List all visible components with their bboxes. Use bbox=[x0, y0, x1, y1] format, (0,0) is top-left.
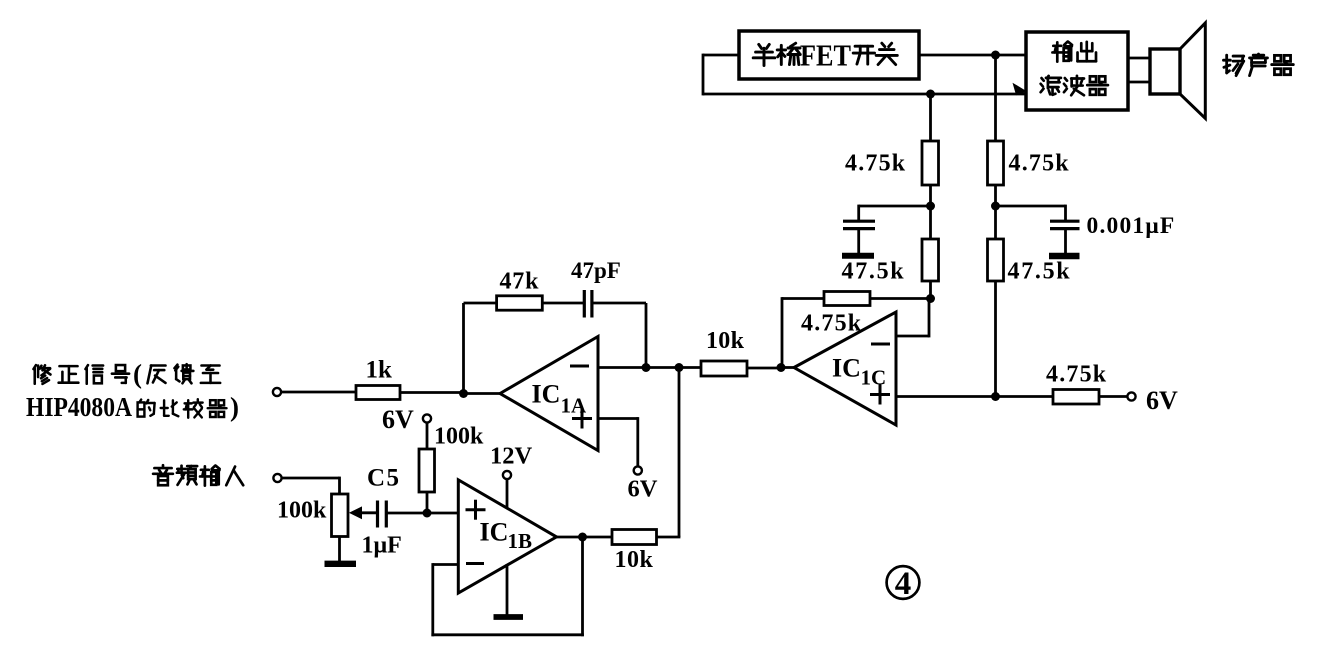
wire: IC1B output bbox=[557, 536, 613, 539]
wire: IC1C non-inverting input to 4.75k/6V bbox=[896, 395, 1053, 398]
junction: non-inverting rail meets 47.5k bbox=[991, 392, 1000, 401]
wire: left node to capacitor bbox=[859, 205, 931, 221]
svg-text:C5: C5 bbox=[367, 465, 401, 492]
resistor 4.75k (to 6V ref) bbox=[1053, 390, 1099, 405]
resistor 10k (IC1C out to IC1A) bbox=[701, 361, 747, 376]
label: 半桥FET开关 bbox=[753, 38, 897, 73]
svg-text:6V: 6V bbox=[382, 405, 414, 434]
svg-text:6V: 6V bbox=[1146, 386, 1178, 415]
junction: IC1C inverting node (47.5k/4.75k) bbox=[926, 294, 935, 303]
block: output filter box bbox=[1026, 32, 1128, 110]
op-amp IC1B (points right) bbox=[458, 480, 556, 593]
terminal: audio input bbox=[273, 474, 281, 482]
wire: IC1A non-inverting to 6V terminal bbox=[598, 417, 638, 467]
wire: right 4.75k to 47.5k bbox=[994, 185, 997, 239]
wire: feedback right leg down to inverting rail bbox=[645, 303, 648, 368]
svg-text:IC: IC bbox=[532, 380, 561, 409]
minus sign IC1A bbox=[570, 365, 589, 368]
label: 修正信号(反馈至 bbox=[33, 365, 50, 384]
resistor 1k bbox=[356, 386, 400, 400]
wire: filter to speaker lower bbox=[1128, 81, 1151, 84]
svg-text:): ) bbox=[230, 392, 239, 422]
wire: right node to 0.001uF capacitor bbox=[996, 205, 1066, 221]
minus sign IC1C bbox=[871, 343, 890, 346]
capacitor C5 1uF bbox=[378, 501, 387, 528]
resistor 4.75k (right, from top rail) bbox=[988, 141, 1004, 185]
block: half-bridge FET switch box bbox=[739, 31, 919, 79]
svg-text:12V: 12V bbox=[490, 443, 533, 470]
resistor 47k (IC1A feedback) bbox=[497, 296, 543, 310]
svg-text:4.75k: 4.75k bbox=[801, 311, 862, 337]
junction: lower rail at x=930 bbox=[926, 90, 935, 99]
ground bar under left capacitor bbox=[842, 253, 874, 259]
resistor 100k (bias) bbox=[419, 449, 435, 492]
plus sign IC1B bbox=[466, 500, 486, 520]
svg-text:10k: 10k bbox=[615, 547, 654, 573]
potentiometer 100k body bbox=[332, 494, 349, 537]
svg-text:4.75k: 4.75k bbox=[1046, 362, 1107, 388]
junction: feedback joins inverting rail bbox=[642, 363, 651, 372]
label: 输出滤波器 bbox=[1041, 42, 1108, 96]
ground bar under 0.001uF bbox=[1049, 253, 1080, 259]
svg-text:6V: 6V bbox=[628, 476, 658, 503]
wire: IC1B ground stem bbox=[506, 564, 509, 615]
capacitor 47pF (feedback) bbox=[584, 290, 592, 318]
wire: terminal to 1k bbox=[281, 391, 356, 394]
pot wiper arrow bbox=[350, 507, 362, 518]
wire: C5 to IC1B non-inverting bbox=[386, 512, 458, 515]
ground bar IC1B bbox=[494, 614, 524, 620]
wire: 4.75k to 6V terminal bbox=[1099, 395, 1128, 398]
wire: IC1A output to apex bbox=[464, 392, 502, 395]
svg-text:0.001μF: 0.001μF bbox=[1087, 213, 1176, 239]
plus sign IC1A bbox=[572, 409, 592, 429]
label: 音频输入 bbox=[153, 465, 173, 485]
wire: left 4.75k to 47.5k bbox=[929, 185, 932, 239]
wire: feedback left leg down to output node bbox=[462, 303, 465, 394]
svg-text:4.75k: 4.75k bbox=[845, 151, 906, 177]
junction: top rail at x=995 bbox=[991, 51, 1000, 60]
resistor 4.75k (IC1C feedback) bbox=[824, 292, 870, 306]
wire: 12V to IC1B top bbox=[506, 479, 509, 510]
junction: IC1B output node bbox=[578, 533, 587, 542]
op-amp IC1A (points left) bbox=[500, 337, 598, 451]
terminal: 6V bias bbox=[423, 414, 431, 422]
terminal: correction signal bbox=[273, 388, 281, 396]
svg-text:1μF: 1μF bbox=[362, 533, 402, 559]
wire: vertical drop from lower rail to 4.75k bbox=[929, 94, 932, 141]
svg-text:(: ( bbox=[133, 359, 142, 389]
wire: IC1B feedback loop (inverting to output) bbox=[431, 537, 584, 636]
speaker LS1 magnet bbox=[1150, 49, 1180, 94]
junction: IC1A output node bbox=[459, 389, 468, 398]
terminal: 6V reference right bbox=[1127, 392, 1135, 400]
svg-text:4: 4 bbox=[895, 566, 912, 602]
svg-text:47pF: 47pF bbox=[571, 258, 621, 283]
wire: 10k to vertical rail bbox=[657, 536, 681, 539]
resistor 4.75k (left, from lower rail) bbox=[922, 141, 939, 185]
wire: 1k to IC1A output node bbox=[400, 391, 464, 394]
capacitor 0.001uF bbox=[1050, 221, 1080, 253]
junction: IC1C output node bbox=[777, 363, 786, 372]
wire: pot bottom to ground bbox=[338, 537, 341, 563]
svg-text:1k: 1k bbox=[366, 357, 393, 384]
wire: IC1A inverting input rail bbox=[598, 366, 701, 369]
svg-text:IC: IC bbox=[480, 518, 509, 547]
speaker LS1 cone bbox=[1180, 23, 1205, 118]
wire: filter to speaker upper bbox=[1128, 57, 1151, 60]
terminal: 12V supply bbox=[503, 471, 511, 479]
wire: feedback left leg of IC1C bbox=[782, 297, 824, 369]
ground bar under pot bbox=[325, 561, 357, 567]
svg-text:1C: 1C bbox=[861, 366, 887, 390]
plus sign IC1C bbox=[870, 385, 890, 405]
wire: IC1A feedback top rail bbox=[464, 302, 647, 305]
figure number circled 4 bbox=[887, 566, 920, 599]
svg-text:IC: IC bbox=[832, 354, 861, 383]
svg-text:47.5k: 47.5k bbox=[1008, 259, 1072, 285]
wire: 6V terminal to 100k bbox=[426, 422, 429, 449]
resistor 47.5k (left) bbox=[922, 239, 939, 281]
svg-text:47k: 47k bbox=[500, 269, 540, 295]
svg-text:4.75k: 4.75k bbox=[1009, 151, 1070, 177]
capacitor (left divider, to bar) bbox=[843, 221, 875, 253]
minus sign IC1B bbox=[466, 562, 484, 565]
wire: 10k to IC1C output node bbox=[747, 367, 781, 370]
svg-text:HIP4080A: HIP4080A bbox=[26, 392, 132, 422]
wire: IC1C output stub bbox=[781, 366, 795, 369]
svg-text:1B: 1B bbox=[508, 529, 533, 553]
resistor 10k (IC1B out) bbox=[612, 530, 657, 545]
junction: node left divider bbox=[926, 202, 935, 211]
wire: FET switch lower output (left loop to output filter) bbox=[703, 54, 1026, 96]
junction: node right divider bbox=[991, 202, 1000, 211]
wire: audio input to pot bbox=[281, 477, 340, 494]
label: 扬声器 bbox=[1223, 55, 1243, 75]
svg-text:100k: 100k bbox=[434, 424, 484, 450]
wire: vertical drop from top rail to 4.75k (crosses lower wire) bbox=[994, 55, 997, 141]
resistor 47.5k (right) bbox=[988, 239, 1004, 281]
op-amp IC1C (points left) bbox=[794, 312, 896, 425]
wire: feedback resistor to inverting node bbox=[870, 297, 931, 300]
svg-text:47.5k: 47.5k bbox=[842, 259, 906, 285]
svg-text:FET: FET bbox=[800, 38, 851, 73]
wire: IC1C inverting input up to node bbox=[896, 297, 929, 337]
wire: 100k to IC1B + node bbox=[426, 492, 429, 513]
svg-text:100k: 100k bbox=[277, 498, 327, 524]
svg-text:10k: 10k bbox=[706, 328, 745, 354]
junction: 100k bias joins + input bbox=[423, 509, 432, 518]
wire: right 47.5k down to IC1C non-inverting rail bbox=[994, 281, 997, 397]
junction: IC1B 10k joins inverting rail bbox=[675, 363, 684, 372]
wire: FET switch upper output to output filter bbox=[919, 54, 1026, 57]
arrowhead into output filter bbox=[1014, 84, 1027, 95]
wire: left 47.5k to IC1C inverting node bbox=[929, 281, 932, 299]
terminal: 6V under IC1A bbox=[634, 466, 642, 474]
wire: vertical from IC1B output 10k up to inverting rail bbox=[678, 368, 681, 538]
